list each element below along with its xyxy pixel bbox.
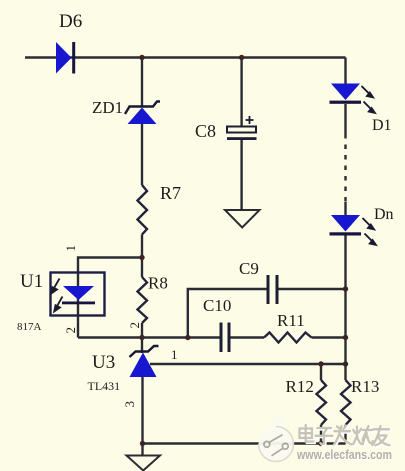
wire U1 pin1 — [78, 258, 142, 338]
wire dashed LED string — [344, 134, 346, 202]
svg-text:U3: U3 — [92, 352, 115, 373]
capacitor C10 — [220, 323, 231, 353]
wire R8 to node2 — [141, 323, 143, 338]
glyph shao — [353, 426, 373, 444]
wire R12 drop — [320, 364, 322, 380]
svg-text:www.elecfans.com: www.elecfans.com — [296, 448, 392, 462]
resistor R12 — [317, 380, 327, 425]
node right rail mid — [343, 335, 348, 340]
glyph you — [373, 426, 390, 445]
node right rail C9 — [343, 286, 348, 291]
opto U1 LED — [62, 286, 95, 304]
capacitor C9 — [267, 275, 279, 304]
svg-text:ZD1: ZD1 — [92, 98, 123, 117]
resistor R11 — [264, 333, 312, 343]
wire bottom rail — [143, 442, 346, 444]
svg-text:U1: U1 — [20, 271, 43, 292]
svg-text:C10: C10 — [203, 296, 231, 315]
svg-text:Dn: Dn — [374, 206, 394, 223]
svg-text:1: 1 — [63, 245, 78, 252]
diode D6 — [56, 42, 75, 74]
resistor R13 — [341, 380, 351, 425]
svg-text:1: 1 — [171, 347, 178, 362]
wire C10 to R11 — [231, 336, 265, 338]
wire top rail — [25, 56, 346, 58]
wire U3 ref — [150, 363, 346, 365]
resistor R8 — [138, 277, 148, 323]
svg-text:R11: R11 — [277, 311, 305, 330]
node top-ZD1 — [139, 55, 144, 60]
ground C8 — [225, 210, 260, 228]
LED D1 — [330, 84, 362, 104]
svg-text:R13: R13 — [351, 377, 379, 396]
svg-text:TL431: TL431 — [88, 379, 121, 393]
node R7-U1 — [139, 255, 144, 260]
ground main — [127, 456, 161, 471]
wire node to U3 — [141, 338, 143, 354]
glyph dian — [300, 425, 314, 442]
wire U1 pin2 — [78, 336, 142, 338]
wire D1 to dashes — [344, 104, 346, 134]
glyph fa — [334, 426, 352, 445]
node R12 bottom — [318, 441, 323, 446]
wire Dn to bottom — [344, 236, 346, 381]
watermark CJK text — [300, 425, 391, 447]
opto U1 arrows — [51, 279, 62, 312]
node bottom-left — [140, 441, 145, 446]
wire C9 branch — [188, 289, 346, 338]
wire U3 cathode drop — [141, 377, 143, 444]
svg-text:2: 2 — [127, 322, 142, 329]
glyph zi — [316, 428, 333, 444]
svg-text:3: 3 — [122, 401, 137, 408]
svg-text:D1: D1 — [372, 117, 392, 134]
svg-text:C9: C9 — [239, 259, 259, 278]
LED Dn — [330, 215, 362, 236]
wire mid rail — [142, 336, 220, 338]
wire R11 to right rail — [312, 336, 346, 338]
regulator U3 — [130, 346, 159, 377]
wire R13 bottom — [344, 425, 346, 444]
node C9 branch — [185, 335, 190, 340]
wire R12 bottom — [320, 425, 322, 444]
wire C8 to ground — [240, 140, 242, 210]
wire ZD1 drop — [141, 58, 143, 108]
wire right rail top — [344, 58, 346, 84]
svg-text:817A: 817A — [17, 321, 42, 333]
svg-text:R7: R7 — [160, 183, 181, 203]
watermark url — [296, 448, 393, 463]
node top-C8 — [239, 55, 244, 60]
node mid-left — [139, 335, 144, 340]
svg-text:C8: C8 — [195, 121, 216, 141]
wire C8 drop — [240, 58, 242, 127]
LED D1 arrows — [362, 86, 375, 113]
svg-text:R12: R12 — [286, 377, 314, 396]
svg-text:R8: R8 — [148, 274, 168, 293]
svg-text:D6: D6 — [59, 11, 82, 32]
resistor R7 — [138, 185, 148, 235]
node right rail ref — [343, 361, 348, 366]
wire ZD1 to R7 — [141, 124, 143, 185]
node R12 top — [318, 361, 323, 366]
wire node to ground — [141, 444, 143, 456]
watermark logo — [259, 417, 294, 462]
LED Dn arrows — [363, 218, 376, 245]
opto U1 box — [51, 273, 105, 316]
zener ZD1 — [125, 102, 160, 125]
wire R7 to node — [141, 235, 143, 278]
capacitor C8 — [227, 116, 257, 140]
svg-text:2: 2 — [63, 327, 78, 334]
wire dashes to Dn — [344, 202, 346, 216]
